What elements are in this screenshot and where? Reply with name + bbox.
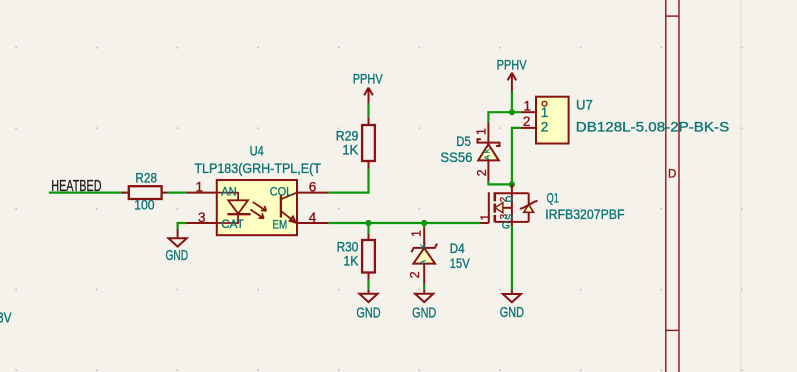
wire U7 pin2 to drain junction <box>512 128 521 184</box>
svg-text:2: 2 <box>523 114 531 129</box>
svg-text:GND: GND <box>356 305 380 321</box>
svg-text:IRFB3207PBF: IRFB3207PBF <box>545 206 624 222</box>
mosfet Q1 <box>481 184 538 226</box>
ground (Q1 source) <box>503 290 521 303</box>
svg-text:3: 3 <box>198 210 206 225</box>
svg-text:HEATBED: HEATBED <box>51 178 101 195</box>
svg-text:2: 2 <box>408 271 422 278</box>
wire R30 to GND <box>367 279 369 289</box>
wire U4 pin4 to Q1 gate <box>328 222 480 224</box>
svg-text:SS56: SS56 <box>440 150 472 165</box>
svg-text:D5: D5 <box>456 134 471 149</box>
connector U7 <box>521 97 569 144</box>
svg-text:G: G <box>502 220 510 232</box>
svg-text:GND: GND <box>500 305 524 321</box>
power PPHV (U7) <box>508 73 517 91</box>
svg-text:A: A <box>483 155 492 160</box>
svg-text:15V: 15V <box>450 256 471 271</box>
svg-text:3V: 3V <box>0 310 12 326</box>
svg-text:1: 1 <box>541 105 549 120</box>
junction PPHV U7 node <box>509 109 515 115</box>
svg-text:1K: 1K <box>343 254 359 269</box>
svg-text:D: D <box>504 195 515 202</box>
svg-text:2: 2 <box>541 120 549 135</box>
junction D4 node <box>421 220 427 226</box>
junction drain node <box>509 181 515 187</box>
zener diode D4 <box>411 228 437 284</box>
ground (R30) <box>359 290 377 302</box>
wire D4 to GND <box>423 284 425 290</box>
resistor R29 <box>362 117 375 168</box>
svg-text:K: K <box>482 148 491 153</box>
svg-text:GND: GND <box>166 248 189 264</box>
wire junction to D4 <box>423 223 425 228</box>
wire Q1 source to GND <box>511 225 513 290</box>
svg-text:D4: D4 <box>450 241 465 256</box>
svg-text:U4: U4 <box>250 144 264 159</box>
wire drain junction to Q1 <box>511 184 513 188</box>
svg-text:D: D <box>668 168 676 180</box>
svg-text:1K: 1K <box>342 142 359 157</box>
power PPHV (R29) <box>364 88 373 103</box>
wire R29 to PPHV <box>367 103 369 118</box>
svg-text:K: K <box>418 244 427 249</box>
resistor R28 <box>122 186 168 199</box>
svg-text:COL: COL <box>270 184 293 198</box>
svg-text:Q1: Q1 <box>547 190 559 205</box>
wire D5 anode to drain junction <box>488 181 512 185</box>
schottky diode D5 <box>478 122 500 180</box>
svg-text:R30: R30 <box>337 240 359 255</box>
svg-text:1: 1 <box>196 179 204 194</box>
junction R30 node <box>365 220 371 226</box>
optocoupler U4 <box>187 180 329 235</box>
wire junction to R30 <box>367 223 369 234</box>
svg-text:4: 4 <box>309 210 317 225</box>
ground (U4 CAT) <box>169 230 187 247</box>
wire R28 to U4 pin1 <box>168 192 187 194</box>
wire PPHV to U7 pin1 junction <box>512 91 521 112</box>
svg-text:GND: GND <box>412 305 436 321</box>
svg-text:1: 1 <box>409 230 423 237</box>
svg-text:A: A <box>418 260 427 265</box>
svg-text:PPHV: PPHV <box>353 71 384 86</box>
ground (D4) <box>415 290 433 302</box>
resistor R30 <box>362 234 375 280</box>
svg-text:DB128L-5.08-2P-BK-S: DB128L-5.08-2P-BK-S <box>576 119 729 135</box>
svg-text:1: 1 <box>474 128 488 135</box>
svg-text:U7: U7 <box>576 98 593 113</box>
svg-text:AN: AN <box>221 184 236 198</box>
wire U4 pin3 to GND <box>178 223 187 230</box>
svg-text:TLP183(GRH-TPL,E(T: TLP183(GRH-TPL,E(T <box>194 160 321 176</box>
svg-text:CAT: CAT <box>221 217 244 231</box>
svg-text:6: 6 <box>309 179 317 194</box>
svg-text:R28: R28 <box>135 171 157 186</box>
wire D5 cathode to junction <box>488 112 512 122</box>
svg-text:1: 1 <box>478 214 492 221</box>
wire HEATBED to R28 <box>49 192 125 194</box>
svg-text:PPHV: PPHV <box>497 58 528 73</box>
svg-text:2: 2 <box>475 169 489 176</box>
svg-text:100: 100 <box>134 197 155 212</box>
wire U4 pin6 to R29 <box>328 168 368 192</box>
svg-text:1: 1 <box>524 98 532 113</box>
svg-text:EM: EM <box>272 217 287 231</box>
